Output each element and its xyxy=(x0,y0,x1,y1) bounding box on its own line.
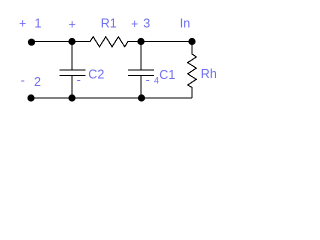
svg-text:C2: C2 xyxy=(88,68,104,82)
svg-text:+: + xyxy=(131,17,138,31)
junction bottom of C2 xyxy=(68,94,75,101)
resistor Rh (vertical zigzag from In to bottom rail) xyxy=(188,42,197,99)
svg-text:-: - xyxy=(146,73,150,87)
junction bottom of C1 xyxy=(138,94,145,101)
svg-text:-: - xyxy=(21,74,25,88)
svg-text:3: 3 xyxy=(143,16,150,30)
label node 3 "+ 3" xyxy=(131,16,150,31)
wire bottom rail: terminal 2 to Rh bottom xyxy=(31,97,192,99)
svg-text:Rh: Rh xyxy=(201,67,217,81)
capacitor C1 xyxy=(128,42,154,99)
svg-text:C1: C1 xyxy=(159,68,175,82)
svg-text:4: 4 xyxy=(154,75,159,85)
svg-text:+: + xyxy=(69,17,76,31)
label node 1 "+ 1" xyxy=(19,16,41,30)
svg-text:-: - xyxy=(77,73,81,87)
terminal 1 xyxy=(28,39,35,46)
wire top rail: node 3 to node In xyxy=(141,41,192,43)
label node 2 "- 2" xyxy=(21,74,41,89)
node 3 junction (top of C1) xyxy=(137,38,144,45)
svg-text:R1: R1 xyxy=(101,16,117,30)
svg-text:In: In xyxy=(180,16,190,30)
terminal 2 xyxy=(27,94,34,101)
label C1 with value 4 xyxy=(154,68,175,85)
svg-text:1: 1 xyxy=(35,16,42,30)
svg-text:2: 2 xyxy=(34,75,41,89)
capacitor C2 xyxy=(60,42,86,99)
node A junction (top of C2) xyxy=(68,38,75,45)
wire top rail: terminal 1 to node A xyxy=(32,41,73,43)
svg-text:+: + xyxy=(19,16,26,30)
node In junction xyxy=(188,38,195,45)
resistor R1 (zigzag between node A and node 3) xyxy=(72,37,141,47)
